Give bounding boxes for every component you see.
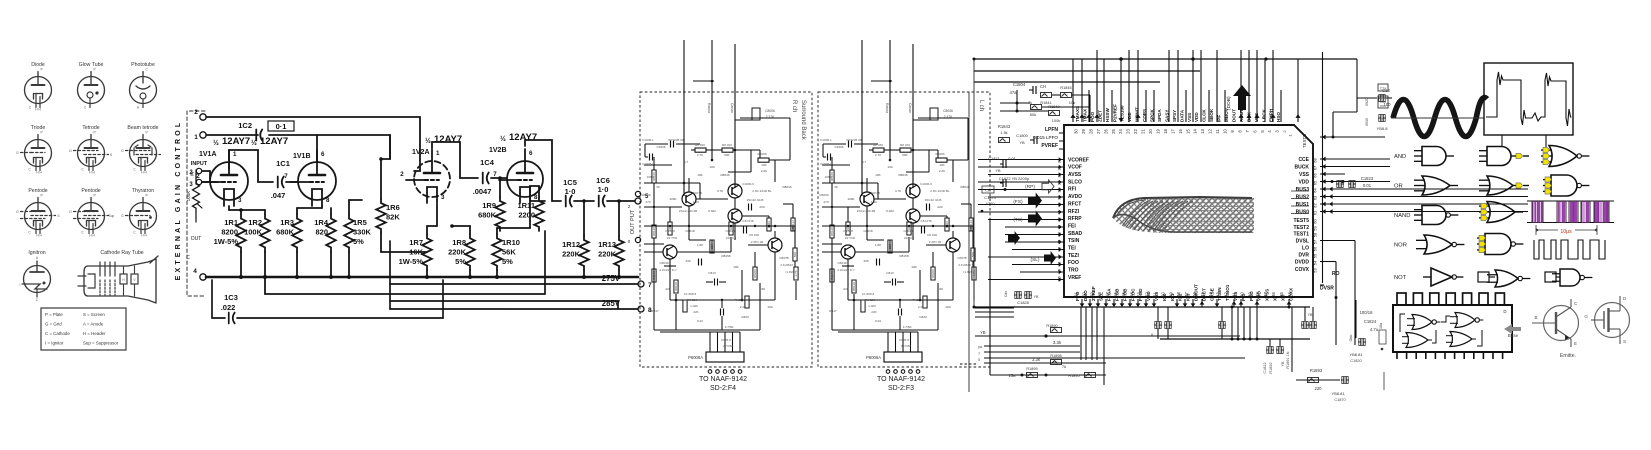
svg-text:R 820 6: R 820 6 — [735, 298, 746, 302]
gate NOR row4 col1 — [1424, 235, 1452, 254]
svg-text:BUS2: BUS2 — [1296, 194, 1310, 200]
square wave — [1534, 240, 1605, 259]
module1 left edge terminals — [635, 191, 640, 196]
DIP internal gate A — [1412, 315, 1432, 330]
svg-text:H H: H H — [141, 234, 147, 238]
Triode tube symbol — [16, 125, 51, 175]
svg-text:MONIT: MONIT — [1135, 107, 1140, 122]
svg-text:13: 13 — [1200, 129, 1205, 134]
gate AND row2 col3 with markers — [1551, 175, 1577, 196]
svg-text:C826 8: C826 8 — [899, 338, 909, 342]
svg-text:Obb: Obb — [1349, 335, 1353, 342]
svg-text:C1005-L: C1005-L — [820, 162, 832, 166]
svg-text:C1006-L: C1006-L — [642, 138, 654, 142]
svg-text:2200: 2200 — [518, 211, 535, 220]
module resistors SD-2:F3 — [830, 170, 834, 183]
bottom bus wire — [975, 306, 1310, 308]
svg-text:2.8C 224D BL: 2.8C 224D BL — [752, 189, 772, 193]
IC internal moire graphic — [1110, 194, 1256, 236]
svg-text:Emitte.: Emitte. — [1560, 353, 1576, 359]
svg-text:61: 61 — [1074, 292, 1079, 297]
svg-text:1: 1 — [233, 151, 237, 158]
svg-text:4.7/50: 4.7/50 — [725, 325, 734, 329]
svg-text:(RP): (RP) — [1025, 184, 1035, 190]
svg-text:10k: 10k — [1069, 100, 1075, 105]
svg-text:220: 220 — [937, 205, 942, 209]
wire VSS — [1320, 173, 1345, 175]
pin arrowheads top — [1070, 114, 1075, 118]
svg-text:R817: R817 — [651, 309, 659, 313]
svg-text:1W-5%: 1W-5% — [399, 257, 424, 266]
svg-text:27: 27 — [1096, 129, 1101, 134]
svg-text:Sup = Suppressor: Sup = Suppressor — [83, 341, 119, 346]
svg-text:C807B: C807B — [779, 256, 788, 260]
svg-text:55: 55 — [1121, 292, 1126, 297]
svg-text:2SC2 240 4B: 2SC2 240 4B — [857, 209, 875, 213]
svg-text:Thyratron: Thyratron — [132, 188, 154, 194]
svg-text:Diode: Diode — [31, 62, 45, 68]
legend key box — [41, 308, 126, 350]
svg-text:R1895: R1895 — [1068, 374, 1079, 378]
wire input to 1V1A grid — [202, 170, 210, 172]
svg-text:1C4: 1C4 — [480, 158, 495, 167]
module capacitors SD-2:F3 — [848, 141, 850, 148]
svg-text:68K: 68K — [902, 153, 908, 157]
svg-text:½: ½ — [251, 139, 257, 147]
capacitor 1C5 1.0 — [565, 196, 567, 207]
wire VDD with caps C1823 — [1320, 181, 1390, 183]
svg-text:51: 51 — [1153, 292, 1158, 297]
svg-text:R8 046: R8 046 — [695, 143, 705, 147]
svg-text:59: 59 — [1089, 292, 1094, 297]
BUS wires — [1320, 188, 1528, 190]
svg-text:220: 220 — [843, 287, 848, 291]
svg-text:½: ½ — [500, 135, 506, 143]
svg-text:VDD: VDD — [1298, 179, 1309, 185]
svg-text:1080: 1080 — [647, 175, 654, 179]
wire R6 bottom to R7 — [380, 233, 382, 252]
connector P6005A — [884, 352, 922, 362]
svg-text:1R7: 1R7 — [409, 238, 423, 247]
svg-text:C820: C820 — [741, 315, 749, 319]
svg-text:64: 64 — [1313, 188, 1318, 193]
svg-text:4: 4 — [193, 268, 197, 275]
wire through 1C2 — [206, 134, 258, 136]
vertical drops from top bus to IC top pins — [1072, 59, 1074, 122]
svg-text:50k: 50k — [1030, 112, 1036, 117]
svg-text:2.7K: 2.7K — [697, 153, 704, 157]
svg-text:R817: R817 — [829, 309, 837, 313]
svg-text:YB8.81: YB8.81 — [1331, 391, 1345, 396]
svg-text:R8136: R8136 — [674, 282, 678, 291]
wire R4 top — [330, 208, 332, 214]
svg-text:330: 330 — [685, 259, 690, 263]
svg-text:R1890: R1890 — [1046, 324, 1057, 328]
10us dimension — [1536, 229, 1597, 231]
routing verticals left of IC — [968, 92, 970, 392]
svg-text:28: 28 — [1088, 129, 1093, 134]
transistor Q5 SD-2:F4 — [768, 238, 782, 252]
svg-text:8: 8 — [326, 197, 330, 204]
svg-text:C1 808 8: C1 808 8 — [862, 292, 875, 296]
resistor R5 330K 5% — [344, 214, 354, 252]
svg-text:R8 046: R8 046 — [873, 143, 883, 147]
svg-text:CH: CH — [1040, 84, 1046, 89]
svg-text:1V2A: 1V2A — [412, 149, 430, 156]
svg-text:Raooa: Raooa — [707, 103, 711, 113]
svg-text:36: 36 — [1271, 292, 1276, 297]
svg-text:R1843: R1843 — [998, 124, 1011, 129]
resistor R1 8200 1W-5% — [236, 214, 246, 252]
svg-text:C1828: C1828 — [1017, 300, 1030, 305]
svg-text:FEI: FEI — [1068, 223, 1076, 229]
svg-text:12AY7: 12AY7 — [509, 132, 537, 143]
svg-text:10K: 10K — [875, 173, 881, 177]
verticals below bus — [989, 307, 991, 375]
svg-text:47a: 47a — [1010, 90, 1018, 95]
svg-text:R8126: R8126 — [652, 227, 656, 236]
oscillogram trace — [1486, 72, 1572, 126]
svg-text:4.7/50: 4.7/50 — [903, 325, 912, 329]
svg-text:COVX: COVX — [1295, 267, 1310, 273]
svg-text:C807B: C807B — [957, 256, 966, 260]
svg-text:1.8K: 1.8K — [759, 287, 766, 291]
gate OR row1 col3 with markers — [1549, 146, 1577, 167]
oscillogram box — [1484, 63, 1573, 135]
transistor Q3 SD-2:F4 — [728, 209, 742, 223]
svg-text:0.01: 0.01 — [1363, 183, 1372, 188]
svg-text:DVDD: DVDD — [1295, 259, 1310, 265]
svg-text:R8126: R8126 — [830, 227, 834, 236]
svg-text:56K: 56K — [793, 252, 797, 257]
svg-text:C1820: C1820 — [1350, 359, 1361, 363]
wires upper-left cluster — [1000, 102, 1030, 104]
svg-text:A2 R62: A2 R62 — [723, 344, 734, 348]
svg-text:3: 3 — [238, 197, 242, 204]
svg-text:53: 53 — [1313, 268, 1318, 273]
svg-text:0930: 0930 — [1365, 118, 1369, 126]
svg-text:R8158: R8158 — [721, 254, 730, 258]
svg-text:6: 6 — [321, 151, 325, 158]
svg-text:LO: LO — [1302, 245, 1309, 251]
svg-text:Raooa: Raooa — [885, 103, 889, 113]
svg-text:C8048: C8048 — [659, 261, 668, 265]
svg-text:CLCK: CLCK — [1202, 109, 1207, 122]
svg-text:2.8C 224D BL: 2.8C 224D BL — [930, 189, 950, 193]
svg-text:Glow Tube: Glow Tube — [79, 62, 104, 68]
svg-text:220: 220 — [759, 205, 764, 209]
svg-text:H: H — [1381, 116, 1384, 121]
svg-text:C1006: C1006 — [656, 145, 665, 149]
svg-text:1.8K: 1.8K — [937, 287, 944, 291]
svg-text:3.3k: 3.3k — [1032, 357, 1041, 362]
svg-text:22K: 22K — [693, 310, 699, 314]
svg-text:YB8.81: YB8.81 — [1349, 352, 1363, 357]
svg-text:C8006: C8006 — [765, 109, 775, 113]
svg-text:G: G — [121, 149, 124, 153]
wire 1V2A plate to 1C4 — [432, 142, 478, 178]
svg-text:R5006: R5006 — [757, 152, 766, 156]
svg-text:1.026: 1.026 — [690, 304, 698, 308]
svg-text:5%: 5% — [455, 257, 466, 266]
svg-text:38: 38 — [1255, 292, 1260, 297]
svg-text:220: 220 — [665, 287, 670, 291]
svg-text:Tetrode: Tetrode — [82, 125, 99, 131]
svg-text:R8 156: R8 156 — [865, 298, 875, 302]
dashed stub — [960, 363, 977, 365]
svg-text:SD-2:F4: SD-2:F4 — [710, 385, 736, 392]
small black flag — [1008, 231, 1020, 245]
transistor Q4 SD-2:F4 — [663, 245, 677, 259]
svg-text:2.2C222 8-Y: 2.2C222 8-Y — [659, 268, 676, 272]
svg-text:DVSL: DVSL — [1296, 238, 1309, 244]
svg-text:INPUT: INPUT — [191, 161, 208, 167]
svg-text:R8158: R8158 — [899, 254, 908, 258]
Tetrode tube symbol — [69, 125, 113, 175]
svg-text:0.01: 0.01 — [697, 319, 703, 323]
svg-text:PVREF: PVREF — [1041, 143, 1058, 149]
svg-text:HSSW: HSSW — [1105, 108, 1110, 122]
svg-text:C813: C813 — [708, 271, 716, 275]
svg-text:2.2C222 8-Y: 2.2C222 8-Y — [837, 268, 854, 272]
svg-text:65: 65 — [1313, 180, 1318, 185]
wire 1V1A cathode to R1/R2 — [228, 206, 230, 210]
svg-text:C8018: C8018 — [685, 229, 694, 233]
svg-text:C1823: C1823 — [1361, 176, 1374, 181]
module extra wiring SD-2:F4 — [644, 164, 672, 166]
svg-text:C1006-6: C1006-6 — [920, 182, 932, 186]
svg-text:L ch: L ch — [978, 100, 984, 111]
svg-text:2: 2 — [194, 109, 198, 116]
svg-text:YB8.8: YB8.8 — [1377, 126, 1389, 131]
svg-text:1R8: 1R8 — [452, 238, 466, 247]
svg-text:AVSS: AVSS — [1068, 172, 1082, 178]
svg-text:1.5k: 1.5k — [1000, 131, 1007, 135]
svg-text:G: G — [69, 149, 72, 153]
transistor Q2 SD-2:F3 — [906, 184, 920, 198]
wire 1V1B plate — [316, 135, 318, 162]
svg-text:49: 49 — [1168, 292, 1173, 297]
svg-text:TRO: TRO — [1068, 268, 1079, 274]
svg-text:SBOK: SBOK — [1209, 108, 1214, 122]
svg-text:RFI: RFI — [1068, 187, 1077, 193]
svg-text:(1.8W): (1.8W) — [785, 270, 794, 274]
svg-text:Cacao: Cacao — [730, 103, 734, 113]
resistor R7 16K 1W-5% — [422, 234, 432, 270]
svg-text:.047: .047 — [271, 191, 286, 200]
svg-text:275V: 275V — [602, 274, 621, 283]
wire resistor bottoms to bus — [240, 252, 242, 277]
svg-text:I: I — [20, 283, 21, 287]
svg-text:W/T2JB 60: W/T2JB 60 — [668, 138, 684, 142]
gate OR row2 col2 with marker — [1487, 176, 1513, 195]
module resistors SD-2:F4 — [652, 170, 656, 183]
svg-text:AVDO: AVDO — [1068, 194, 1082, 200]
svg-text:1·0: 1·0 — [565, 187, 576, 196]
svg-text:G: G — [121, 214, 124, 218]
svg-text:.0047: .0047 — [473, 187, 492, 196]
svg-text:3: 3 — [441, 194, 445, 201]
svg-text:59: 59 — [1313, 226, 1318, 231]
DIP logic IC — [1393, 305, 1512, 352]
svg-text:R8206: R8206 — [931, 269, 935, 278]
svg-text:A = Anode: A = Anode — [83, 322, 104, 327]
svg-text:67: 67 — [1313, 165, 1318, 170]
svg-text:G: G — [16, 151, 19, 155]
DIP internal gate B — [1455, 313, 1475, 328]
svg-text:82K: 82K — [386, 213, 400, 222]
resistor R6 82K — [376, 199, 386, 233]
svg-text:C1824: C1824 — [1364, 319, 1377, 324]
svg-text:DVSR: DVSR — [1320, 286, 1334, 292]
return wire below bus — [265, 231, 545, 294]
caps C1822 — [1266, 349, 1269, 351]
svg-text:TMAXS: TMAXS — [1075, 106, 1080, 122]
svg-text:1V2B: 1V2B — [489, 147, 507, 154]
svg-text:R8046: R8046 — [898, 173, 907, 177]
285V supply wire — [390, 308, 638, 310]
svg-text:44: 44 — [1208, 292, 1213, 297]
resistor R4 820 — [326, 214, 336, 252]
caps right bottom — [1301, 324, 1304, 326]
svg-text:R8046: R8046 — [720, 173, 729, 177]
svg-text:16: 16 — [1178, 129, 1183, 134]
wire R6 top node — [380, 159, 382, 199]
svg-text:BUS3: BUS3 — [1296, 187, 1310, 193]
svg-text:R8046: R8046 — [782, 185, 791, 189]
svg-text:Cacao: Cacao — [908, 103, 912, 113]
wire BUCK — [1320, 166, 1390, 168]
svg-text:C1870: C1870 — [1334, 398, 1345, 402]
svg-text:H = Header: H = Header — [83, 331, 106, 336]
resistor R3 680K — [292, 214, 302, 252]
svg-text:10K: 10K — [733, 265, 739, 269]
svg-text:1R4: 1R4 — [314, 218, 329, 227]
svg-text:R 820 6: R 820 6 — [913, 298, 924, 302]
svg-text:BUS0: BUS0 — [1296, 209, 1310, 215]
svg-text:VCOREF: VCOREF — [1068, 157, 1089, 163]
transistor Q3 SD-2:F3 — [906, 209, 920, 223]
module wiring SD-2:F4 — [645, 143, 668, 145]
thick sine waveform — [1393, 98, 1487, 137]
svg-text:R1845: R1845 — [1060, 86, 1071, 90]
wire 1C1 to 1V1B grid — [286, 181, 298, 183]
svg-text:Phototube: Phototube — [131, 62, 155, 68]
svg-text:YB: YB — [1034, 295, 1039, 299]
svg-text:SPSY: SPSY — [1172, 110, 1177, 122]
svg-text:330: 330 — [863, 259, 868, 263]
resistor R1840 50k — [1031, 105, 1042, 110]
svg-text:RFCT: RFCT — [1068, 201, 1081, 207]
svg-text:5%: 5% — [502, 257, 513, 266]
svg-text:C8 CH8: C8 CH8 — [742, 219, 753, 223]
Beam tetrode tube symbol — [121, 125, 160, 175]
svg-text:.022: .022 — [221, 303, 236, 312]
wire R5 top — [348, 200, 350, 214]
svg-text:57: 57 — [1105, 292, 1110, 297]
svg-text:CCE: CCE — [1298, 157, 1309, 163]
svg-text:100: 100 — [887, 165, 892, 169]
svg-text:R6006: R6006 — [819, 193, 828, 197]
svg-text:YB: YB — [1281, 361, 1285, 367]
svg-text:10μs: 10μs — [1560, 229, 1572, 235]
gray strip — [1383, 372, 1385, 390]
svg-text:820: 820 — [315, 228, 328, 237]
wire 1C5 to 1C6 — [574, 200, 594, 202]
svg-text:C1874: C1874 — [984, 195, 997, 200]
svg-text:29: 29 — [1081, 129, 1086, 134]
svg-text:12AY7: 12AY7 — [260, 136, 288, 147]
svg-text:R1891 1N: R1891 1N — [1286, 351, 1290, 368]
module wiring SD-2:F3 — [823, 143, 846, 145]
(DOB) signal arrow — [1233, 85, 1251, 110]
vertical wires right of IC — [1322, 52, 1324, 283]
gate AND row1 col1 — [1422, 147, 1446, 166]
input terminal 1 — [200, 132, 206, 138]
svg-text:RFZI: RFZI — [1068, 209, 1080, 215]
svg-text:H H: H H — [35, 108, 41, 112]
svg-text:R ch: R ch — [791, 100, 797, 112]
svg-text:TEI: TEI — [1068, 246, 1076, 252]
svg-text:55: 55 — [1313, 253, 1318, 258]
svg-text:30: 30 — [1074, 129, 1079, 134]
transistor Q2 SD-2:F4 — [728, 184, 742, 198]
svg-text:C1a: C1a — [1380, 87, 1386, 91]
module capacitors SD-2:F4 — [670, 141, 672, 148]
svg-text:1.026: 1.026 — [868, 304, 876, 308]
Pentode tube symbol — [69, 188, 114, 238]
svg-text:17: 17 — [1170, 129, 1175, 134]
svg-text:1W-5%: 1W-5% — [214, 237, 239, 246]
gate NAND row3 col1 — [1422, 206, 1446, 225]
DIP internal gate C — [1406, 333, 1428, 348]
svg-text:1V1B: 1V1B — [293, 153, 311, 160]
svg-text:54: 54 — [1313, 260, 1318, 265]
svg-text:43: 43 — [1216, 292, 1221, 297]
Base arrow marker — [1504, 324, 1521, 334]
svg-text:R1893: R1893 — [1310, 368, 1323, 373]
svg-text:22/TC8: 22/TC8 — [904, 236, 914, 240]
tube symbol legend — [16, 62, 160, 350]
svg-text:26: 26 — [1103, 129, 1108, 134]
svg-text:Beam tetrode: Beam tetrode — [127, 125, 158, 131]
svg-text:(DOB): (DOB) — [1226, 96, 1232, 110]
resistor R1845 10k — [1061, 93, 1072, 98]
IC U1 (QFP decoder) body — [1064, 125, 1313, 297]
svg-text:VCOF: VCOF — [1068, 165, 1082, 171]
capacitor 1C1 .047 — [277, 177, 279, 188]
svg-text:4.7: 4.7 — [862, 160, 867, 164]
svg-text:1080: 1080 — [825, 175, 832, 179]
svg-text:TEST2: TEST2 — [1293, 225, 1309, 231]
svg-text:66: 66 — [1313, 173, 1318, 178]
svg-text:Base: Base — [1508, 333, 1519, 338]
svg-text:48: 48 — [1176, 292, 1181, 297]
svg-text:1R1: 1R1 — [224, 218, 238, 227]
svg-text:62: 62 — [1313, 203, 1318, 208]
svg-text:68K: 68K — [724, 153, 730, 157]
svg-text:1.8K: 1.8K — [697, 243, 704, 247]
svg-text:100K: 100K — [847, 197, 855, 201]
svg-text:G: G — [16, 210, 19, 214]
resistor R1842 100k — [1049, 111, 1060, 116]
svg-text:AND: AND — [1394, 154, 1406, 160]
wire and resistor R1890 3.3k — [975, 335, 1240, 337]
wire 1V1A plate to 1C1 — [228, 150, 230, 169]
svg-text:34: 34 — [1287, 292, 1292, 297]
svg-text:I = Ignitor: I = Ignitor — [45, 341, 64, 346]
svg-text:E: E — [1574, 341, 1577, 346]
